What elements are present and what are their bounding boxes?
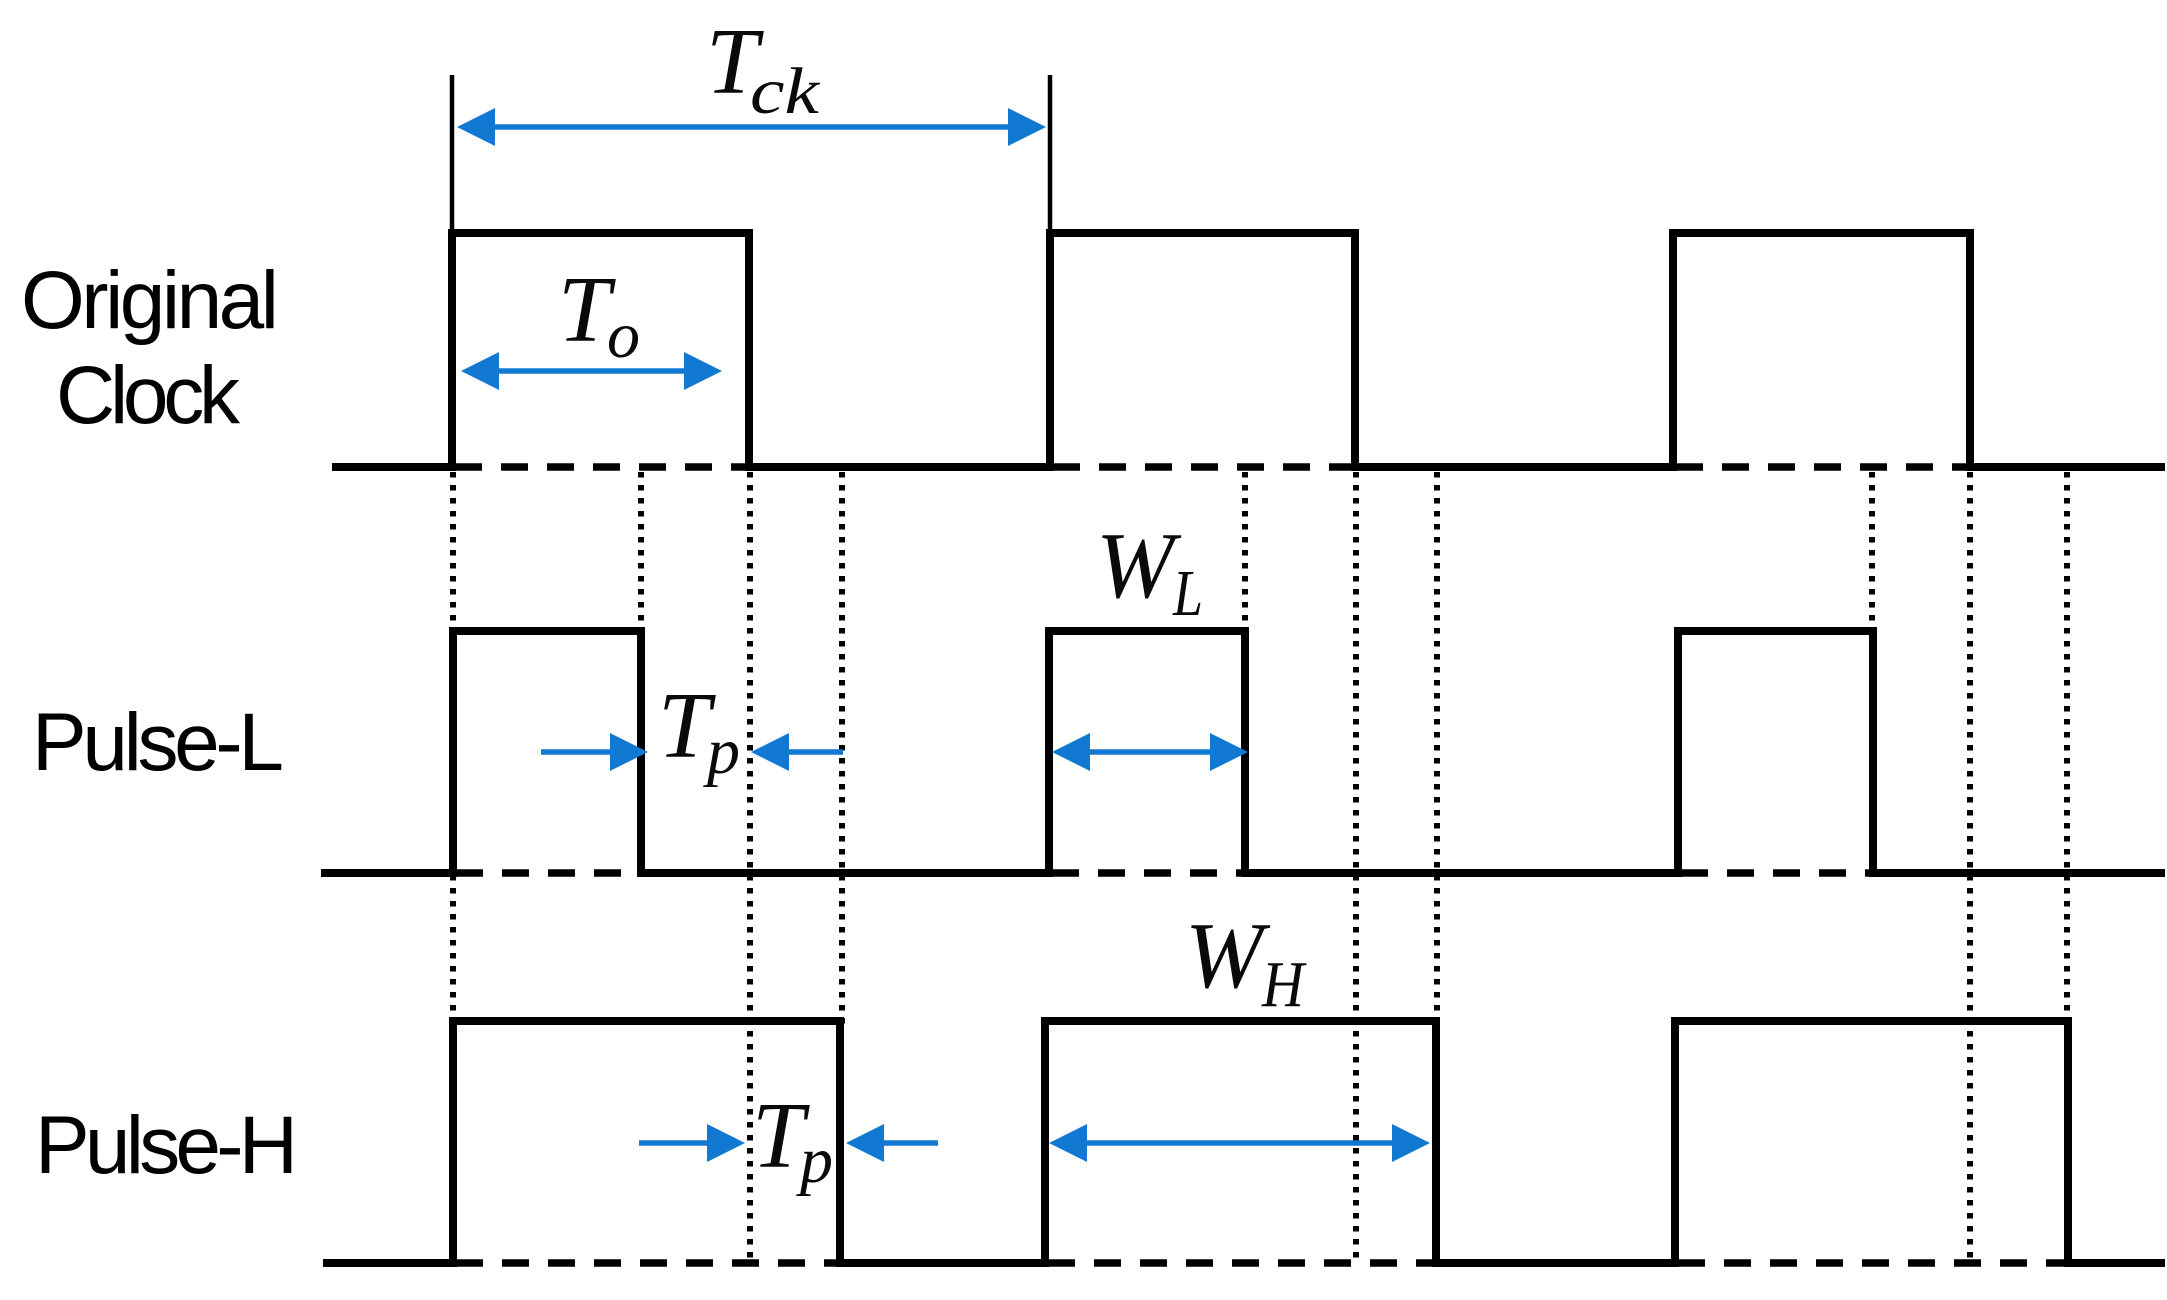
arrow To: [461, 352, 722, 390]
arrow Tp pulse-H left part: [639, 1124, 745, 1162]
arrow Tck: [457, 108, 1046, 146]
original clock waveform: [332, 233, 2165, 467]
svg-text:Original: Original: [21, 255, 279, 346]
clock dashed baseline under pulse 1: [455, 463, 749, 471]
row label Original Clock: [21, 255, 279, 441]
dotted guide at x=1245 (Pulse-L fall 2): [1242, 472, 1248, 873]
Pulse-H dashed baseline under pulse 1: [456, 1259, 840, 1267]
dotted guide at x=1437 (Pulse-H fall 2): [1434, 472, 1440, 1024]
svg-text:Pulse-H: Pulse-H: [35, 1100, 298, 1191]
Pulse-L waveform: [321, 631, 2165, 873]
Pulse-H dashed baseline under pulse 3: [1678, 1259, 2068, 1267]
dotted guide at x=2067 (Pulse-H fall 3): [2064, 472, 2070, 1024]
svg-text:Clock: Clock: [56, 350, 241, 441]
arrow WH: [1049, 1124, 1430, 1162]
thin vertical guide for Tck right: [1048, 75, 1053, 236]
clock dashed baseline under pulse 2: [1053, 463, 1355, 471]
Pulse-H waveform: [323, 1021, 2165, 1263]
svg-text:W: W: [1096, 514, 1182, 618]
Pulse-L dashed baseline under pulse 1: [456, 869, 641, 877]
dotted guide at x=842 (Pulse-H fall 1): [839, 472, 845, 1030]
Pulse-H dashed baseline under pulse 2: [1048, 1259, 1436, 1267]
svg-text:o: o: [607, 299, 640, 372]
Pulse-L dashed baseline under pulse 2: [1052, 869, 1245, 877]
Pulse-L dashed baseline under pulse 3: [1681, 869, 1873, 877]
arrow Tp pulse-L right part: [751, 733, 843, 771]
clock dashed baseline under pulse 3: [1676, 463, 1970, 471]
arrow Tp pulse-H right part: [846, 1124, 938, 1162]
dotted guide at x=1872 (Pulse-L fall 3): [1869, 472, 1875, 873]
svg-text:p: p: [796, 1124, 833, 1197]
svg-text:p: p: [703, 715, 740, 788]
dotted guide at x=1356 (clock fall 2): [1353, 472, 1359, 1263]
arrow WL: [1052, 733, 1248, 771]
svg-text:L: L: [1172, 557, 1203, 630]
svg-text:Pulse-L: Pulse-L: [32, 697, 284, 788]
dotted guide at x=750 (clock fall 1): [747, 472, 753, 1263]
dotted guide at x=1970 (clock fall 3): [1967, 472, 1973, 1263]
arrow Tp pulse-L left part: [541, 733, 648, 771]
svg-text:H: H: [1261, 948, 1307, 1021]
svg-text:ck: ck: [750, 55, 821, 128]
dotted guide at x=453 (clock rising edge 1): [450, 472, 456, 1024]
dotted guide at x=641 (Pulse-L fall 1): [638, 472, 644, 873]
svg-text:W: W: [1185, 904, 1271, 1008]
thin vertical guide for Tck left: [450, 75, 455, 236]
